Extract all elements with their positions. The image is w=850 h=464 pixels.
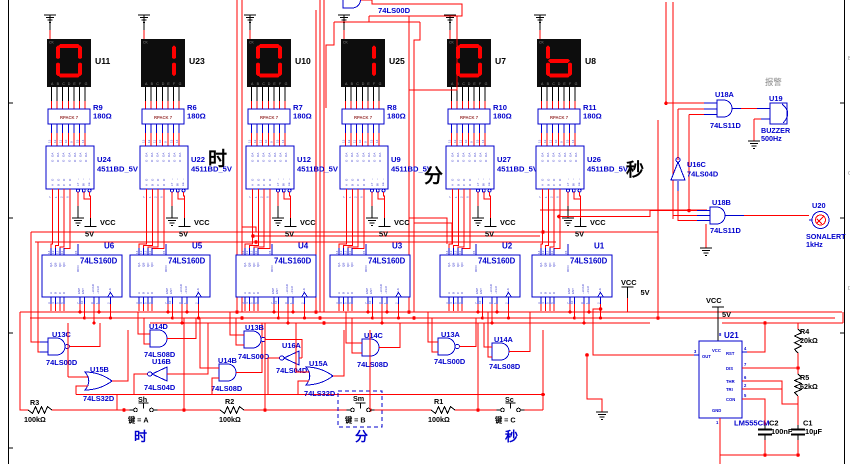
wire	[31, 232, 40, 342]
wire	[381, 304, 383, 323]
wire	[242, 227, 256, 232]
wire	[587, 355, 602, 412]
svg-text:CK: CK	[49, 41, 54, 45]
wire	[173, 124, 175, 133]
svg-text:B: B	[247, 292, 251, 294]
wire	[541, 87, 543, 101]
svg-text:4511BD_5V: 4511BD_5V	[587, 165, 629, 174]
pin	[151, 248, 153, 255]
svg-text:74LS160D: 74LS160D	[478, 257, 516, 266]
svg-text:74LS00D: 74LS00D	[46, 358, 78, 367]
pin	[491, 297, 493, 304]
svg-text:~CLR: ~CLR	[384, 285, 388, 294]
wire	[110, 304, 112, 318]
and gate U14C 74LS08D	[362, 339, 379, 356]
svg-text:14: 14	[537, 250, 541, 254]
wire	[451, 124, 453, 133]
svg-text:RPACK 7: RPACK 7	[260, 115, 279, 120]
svg-text:B: B	[543, 292, 547, 294]
svg-text:OA: OA	[378, 153, 382, 157]
svg-text:D: D	[558, 82, 561, 86]
wire	[346, 312, 362, 343]
wire	[473, 87, 475, 101]
svg-text:B: B	[256, 184, 260, 186]
and3 gate U18B 74LS11D	[710, 207, 725, 224]
svg-text:15: 15	[74, 250, 78, 254]
wire	[552, 87, 554, 101]
wire	[30, 317, 835, 319]
svg-text:A: A	[51, 184, 55, 186]
counter U3 74LS160D	[330, 255, 410, 297]
wire	[178, 87, 180, 101]
svg-text:BI: BI	[572, 183, 576, 186]
ground	[748, 141, 760, 149]
wire	[249, 189, 258, 255]
wire	[573, 304, 575, 318]
ground	[277, 206, 279, 218]
wire	[484, 87, 486, 101]
wire	[152, 189, 164, 255]
wire	[484, 323, 492, 347]
svg-text:OA: OA	[79, 153, 83, 157]
svg-text:时: 时	[134, 429, 147, 444]
svg-text:QA: QA	[447, 263, 451, 267]
wire	[541, 189, 543, 255]
wire	[236, 0, 238, 312]
svg-text:时: 时	[208, 148, 227, 170]
svg-text:OA: OA	[73, 153, 77, 157]
pin	[63, 297, 65, 304]
wire	[73, 124, 75, 133]
svg-text:D: D	[162, 82, 165, 86]
wire	[98, 304, 100, 312]
wire	[262, 87, 264, 101]
svg-text:2: 2	[60, 196, 64, 198]
svg-text:~: ~	[181, 178, 185, 180]
wire	[361, 124, 363, 133]
sheet border left	[9, 0, 14, 464]
resistor R3 100k	[28, 407, 52, 414]
svg-text:~: ~	[572, 178, 576, 180]
pin	[83, 297, 85, 304]
wire	[546, 87, 548, 101]
pin	[342, 297, 344, 304]
wire	[56, 87, 58, 101]
pin bubble	[376, 189, 379, 192]
svg-text:G: G	[575, 82, 578, 86]
svg-text:秒: 秒	[505, 429, 518, 444]
wire	[138, 304, 140, 311]
svg-text:U23: U23	[189, 56, 205, 66]
wire	[704, 102, 717, 104]
wire	[742, 389, 798, 404]
svg-text:VCC: VCC	[590, 218, 606, 227]
svg-text:ENT: ENT	[369, 288, 373, 294]
resistor R1 100k	[431, 407, 455, 414]
wire	[373, 124, 375, 133]
svg-text:5V: 5V	[285, 230, 294, 239]
wire	[398, 304, 400, 318]
junction	[583, 322, 586, 325]
pin	[742, 398, 747, 400]
svg-text:12: 12	[56, 250, 60, 254]
pin	[167, 297, 169, 304]
junction	[167, 311, 170, 314]
svg-text:U2: U2	[502, 242, 513, 251]
svg-text:11: 11	[459, 140, 463, 143]
wire	[544, 304, 546, 311]
ground	[596, 412, 608, 420]
svg-text:ENT: ENT	[275, 288, 279, 294]
ground	[343, 23, 345, 30]
wire	[49, 30, 51, 39]
svg-text:OA: OA	[345, 153, 349, 157]
svg-text:U6: U6	[104, 242, 115, 251]
svg-text:BI: BI	[482, 183, 486, 186]
sonalert U20 1kHz	[812, 212, 829, 229]
power VCC 5V	[184, 218, 186, 227]
pin	[448, 248, 450, 255]
power VCC 5V	[290, 218, 292, 227]
wire	[563, 124, 565, 133]
svg-text:~: ~	[370, 178, 374, 180]
pin	[540, 297, 542, 304]
svg-text:74LS00D: 74LS00D	[434, 357, 466, 366]
power VCC 5V	[712, 306, 724, 308]
pin	[694, 354, 699, 356]
svg-text:A: A	[447, 292, 451, 294]
junction	[381, 322, 384, 325]
svg-text:OA: OA	[546, 153, 550, 157]
wire	[678, 108, 704, 110]
svg-text:U10: U10	[295, 56, 311, 66]
pin bubble	[488, 189, 491, 192]
wire	[456, 124, 458, 133]
ground	[171, 206, 173, 218]
svg-text:DIS: DIS	[726, 366, 733, 371]
wire	[509, 312, 530, 352]
svg-text:13: 13	[541, 250, 545, 254]
svg-text:QB: QB	[247, 263, 251, 267]
svg-text:VCC: VCC	[300, 218, 316, 227]
wire	[479, 124, 481, 133]
wire	[579, 192, 582, 218]
wire	[244, 409, 347, 411]
svg-text:74LS04D: 74LS04D	[687, 170, 719, 179]
svg-text:5V: 5V	[641, 288, 650, 297]
svg-text:QA: QA	[243, 263, 247, 267]
wire	[147, 304, 149, 311]
svg-text:U21: U21	[724, 331, 739, 340]
wire	[287, 304, 289, 323]
junction	[171, 317, 174, 320]
svg-text:ENT: ENT	[169, 288, 173, 294]
svg-text:键 = A: 键 = A	[127, 416, 149, 425]
pin	[452, 297, 454, 304]
wire	[68, 376, 88, 378]
wire	[350, 124, 352, 133]
svg-text:G: G	[285, 82, 288, 86]
wire	[552, 124, 554, 133]
wire	[249, 30, 251, 39]
svg-text:QA: QA	[49, 263, 53, 267]
wire	[569, 87, 571, 101]
svg-text:B: B	[350, 184, 354, 186]
svg-text:Sh: Sh	[138, 395, 147, 404]
svg-text:QB: QB	[451, 263, 455, 267]
svg-text:180Ω: 180Ω	[387, 112, 406, 121]
wire	[456, 87, 458, 101]
wire	[455, 409, 497, 411]
wire	[79, 304, 81, 312]
wire	[742, 381, 782, 389]
switch Sm key B	[347, 409, 351, 411]
junction	[557, 215, 561, 219]
wire	[161, 124, 163, 133]
junction	[541, 230, 545, 234]
svg-text:74LS00D: 74LS00D	[378, 6, 411, 15]
wire	[323, 0, 325, 312]
pin RCO	[165, 244, 167, 255]
wire	[31, 231, 658, 233]
svg-text:~CLR: ~CLR	[290, 285, 294, 294]
svg-text:分: 分	[424, 165, 443, 187]
pin	[342, 248, 344, 255]
pin	[277, 297, 279, 304]
svg-text:~: ~	[176, 178, 180, 180]
wire	[345, 124, 347, 133]
wire	[369, 330, 371, 410]
wire	[236, 323, 262, 373]
svg-text:74LS160D: 74LS160D	[168, 257, 206, 266]
wire	[69, 323, 100, 347]
svg-text:A: A	[539, 292, 543, 294]
svg-text:74LS32D: 74LS32D	[304, 389, 336, 398]
wire	[343, 189, 352, 255]
svg-text:A: A	[251, 184, 255, 186]
pin	[351, 297, 353, 304]
svg-text:BI: BI	[282, 183, 286, 186]
svg-text:OA: OA	[262, 153, 266, 157]
svg-text:U13B: U13B	[245, 323, 264, 332]
resistor pack R11 180ohm	[538, 109, 580, 124]
wire	[20, 312, 28, 410]
wire	[158, 409, 221, 411]
junction	[273, 311, 276, 314]
and gate U14B 74LS08D	[219, 364, 236, 381]
clk wedge	[506, 293, 512, 298]
junction	[182, 408, 186, 412]
not gate U16C 74LS04D	[671, 162, 685, 180]
wire	[89, 192, 92, 218]
pin	[461, 248, 463, 255]
svg-text:OA: OA	[167, 153, 171, 157]
wire	[666, 102, 704, 104]
ground	[539, 23, 541, 30]
svg-text:OA: OA	[467, 153, 471, 157]
pin	[338, 297, 340, 304]
wire	[56, 124, 58, 133]
svg-text:C: C	[356, 82, 359, 86]
wire	[345, 87, 347, 101]
svg-text:秒: 秒	[626, 159, 644, 180]
junction	[93, 322, 96, 325]
svg-text:LT: LT	[276, 183, 280, 186]
svg-text:LE: LE	[181, 182, 185, 186]
svg-text:OA: OA	[178, 153, 182, 157]
pin bubble	[371, 189, 374, 192]
switch Sc key C	[497, 409, 501, 411]
wire	[540, 304, 542, 311]
ground	[143, 23, 145, 30]
svg-text:RCO: RCO	[270, 265, 274, 272]
wire	[254, 189, 264, 255]
svg-text:OA: OA	[479, 153, 483, 157]
seven-segment display U8	[537, 39, 581, 87]
svg-text:11: 11	[60, 251, 64, 254]
svg-text:11: 11	[458, 251, 462, 254]
wire	[150, 87, 152, 101]
pin	[588, 297, 590, 304]
nand gate U13B 74LS00D	[244, 331, 261, 348]
wire	[256, 124, 258, 133]
junction	[303, 317, 306, 320]
svg-text:OA: OA	[350, 153, 354, 157]
wire	[150, 322, 650, 324]
svg-text:键 = C: 键 = C	[494, 416, 516, 425]
wire	[51, 189, 53, 255]
wire	[569, 304, 571, 312]
svg-text:13: 13	[341, 139, 345, 143]
nand gate U13C 74LS00D	[48, 338, 65, 355]
wire	[284, 124, 286, 133]
svg-text:15: 15	[75, 139, 79, 143]
svg-text:LT: LT	[476, 183, 480, 186]
svg-text:10: 10	[80, 300, 84, 304]
pin	[477, 297, 479, 304]
wire	[559, 211, 697, 217]
svg-text:OUT: OUT	[702, 354, 711, 359]
svg-text:D: D	[468, 82, 471, 86]
svg-text:OA: OA	[557, 153, 561, 157]
svg-text:13: 13	[247, 139, 251, 143]
wire	[367, 87, 369, 101]
svg-text:10: 10	[554, 139, 558, 143]
wire	[50, 304, 52, 311]
wire	[481, 304, 483, 318]
svg-text:100kΩ: 100kΩ	[428, 415, 450, 424]
wire	[477, 192, 479, 206]
svg-text:A: A	[137, 292, 141, 294]
wire	[167, 124, 169, 133]
svg-text:74LS11D: 74LS11D	[710, 121, 741, 130]
svg-text:14: 14	[281, 139, 285, 143]
junction	[412, 316, 416, 320]
svg-text:A: A	[451, 184, 455, 186]
pin	[553, 297, 555, 304]
svg-text:OA: OA	[267, 153, 271, 157]
wire	[367, 304, 369, 312]
wire	[842, 312, 844, 323]
pin	[544, 297, 546, 304]
svg-text:74LS160D: 74LS160D	[368, 257, 406, 266]
wire	[540, 209, 707, 211]
svg-text:U3: U3	[392, 242, 403, 251]
pin	[742, 380, 747, 382]
svg-text:12: 12	[347, 139, 351, 143]
and3 gate U18A 74LS11D	[717, 100, 732, 117]
wire	[167, 87, 169, 101]
wire	[304, 304, 306, 318]
wire	[414, 22, 420, 312]
svg-text:RCO: RCO	[364, 265, 368, 272]
pin	[257, 297, 259, 304]
svg-text:C: C	[552, 82, 555, 86]
svg-text:15: 15	[475, 139, 479, 143]
svg-text:10: 10	[168, 300, 172, 304]
junction	[397, 317, 400, 320]
svg-text:OA: OA	[67, 153, 71, 157]
wire	[583, 304, 585, 323]
svg-text:OA: OA	[84, 153, 88, 157]
wire	[467, 87, 469, 101]
wire	[79, 124, 81, 133]
wire	[479, 87, 481, 101]
svg-text:QB: QB	[543, 263, 547, 267]
svg-text:RCO: RCO	[164, 265, 168, 272]
wire	[459, 318, 476, 347]
ground	[700, 248, 712, 256]
wire	[151, 304, 153, 311]
wire	[134, 374, 148, 395]
svg-text:10: 10	[358, 139, 362, 143]
wire	[356, 87, 358, 101]
junction	[541, 393, 545, 397]
svg-text:R5: R5	[800, 373, 809, 382]
svg-text:CK: CK	[539, 41, 544, 45]
wire	[453, 189, 458, 255]
svg-text:14: 14	[135, 250, 139, 254]
wire	[171, 304, 173, 318]
svg-text:U7: U7	[495, 56, 506, 66]
svg-text:C: C	[156, 82, 159, 86]
counter U6 74LS160D	[42, 255, 122, 297]
wire	[452, 304, 454, 311]
pin	[287, 297, 289, 304]
pin bubble	[572, 189, 575, 192]
wire	[462, 124, 464, 133]
nand gate U13A 74LS00D	[438, 338, 455, 355]
pin bubble	[282, 189, 285, 192]
svg-text:~: ~	[566, 178, 570, 180]
svg-text:14: 14	[571, 139, 575, 143]
svg-text:180Ω: 180Ω	[583, 112, 602, 121]
svg-text:OA: OA	[251, 153, 255, 157]
svg-text:74LS04D: 74LS04D	[276, 366, 308, 375]
pin	[98, 297, 100, 304]
wire	[489, 192, 492, 218]
pin	[457, 297, 459, 304]
wire	[491, 304, 493, 323]
counter U4 74LS160D	[236, 255, 316, 297]
svg-text:U4: U4	[298, 242, 309, 251]
pin	[138, 248, 140, 255]
pin	[151, 297, 153, 304]
power VCC 5V	[90, 218, 92, 227]
svg-text:OA: OA	[484, 153, 488, 157]
wire	[383, 192, 386, 218]
svg-text:U14B: U14B	[218, 356, 237, 365]
